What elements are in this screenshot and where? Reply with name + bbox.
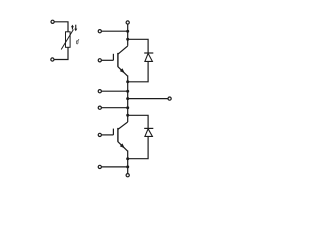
thermistor R1 body: [66, 32, 71, 48]
transistor Q2 gate bar: [112, 129, 114, 135]
wire main bus upper: [127, 24, 129, 46]
terminal aux collector Q1: [98, 30, 101, 33]
diode D1 cathode bar: [144, 52, 153, 54]
terminal gate Q2: [98, 133, 101, 136]
thermistor temperature arrows: [71, 25, 77, 32]
node aux collector Q2: [126, 106, 129, 109]
node AC output: [126, 97, 129, 100]
transistor Q2 emitter arrow: [120, 143, 125, 148]
terminal DC+ top: [126, 21, 129, 24]
node aux emitter: [126, 90, 129, 93]
transistor Q2 collector lead: [118, 122, 128, 129]
transistor Q1 collector lead: [118, 46, 128, 54]
diode D2 cathode bar: [144, 127, 153, 129]
node emitter Q2 / diode D2: [126, 157, 129, 160]
thermistor theta label: [76, 39, 79, 44]
thermistor R1 terminal 2: [51, 58, 54, 61]
wire gate Q1: [102, 59, 114, 61]
node aux emitter Q2: [126, 165, 129, 168]
transistor Q1 channel bar: [117, 53, 119, 67]
wire AC output: [128, 98, 168, 100]
wire aux emitter Q2: [102, 166, 128, 168]
diode D1 triangle: [145, 53, 153, 61]
transistor Q2 emitter lead: [118, 142, 128, 152]
terminal DC- bottom: [126, 174, 129, 177]
transistor Q1 emitter lead: [118, 67, 128, 77]
node junction top bus: [126, 30, 129, 33]
transistor Q1 gate bar: [112, 54, 114, 61]
wire gate Q2: [102, 134, 114, 136]
diode D2 triangle: [145, 129, 153, 137]
wire to diode D2 cathode: [128, 115, 148, 128]
wire mid bus: [127, 76, 129, 123]
terminal AC output: [168, 97, 171, 100]
wire thermistor top: [55, 22, 69, 32]
node collector Q1: [126, 38, 129, 41]
transistor Q1 emitter arrow: [120, 68, 125, 73]
wire aux emitter Q1: [102, 90, 128, 92]
thermistor R1 terminal 1: [51, 20, 54, 23]
wire main bus lower: [127, 151, 129, 174]
terminal aux emitter Q1: [98, 90, 101, 93]
node emitter Q1 / diode D1: [126, 80, 129, 83]
terminal aux emitter Q2: [98, 165, 101, 168]
thermistor R1 diagonal: [61, 30, 73, 50]
node collector Q2: [126, 114, 129, 117]
wire aux collector Q1: [102, 30, 128, 32]
wire thermistor bottom: [54, 47, 68, 59]
wire diode D1 anode return: [128, 61, 148, 81]
terminal gate Q1: [98, 59, 101, 62]
terminal aux collector Q2: [98, 106, 101, 109]
wire to diode D1 cathode: [128, 39, 148, 53]
transistor Q2 channel bar: [117, 128, 119, 142]
wire diode D2 anode return: [128, 136, 148, 158]
wire aux collector Q2: [102, 107, 128, 109]
